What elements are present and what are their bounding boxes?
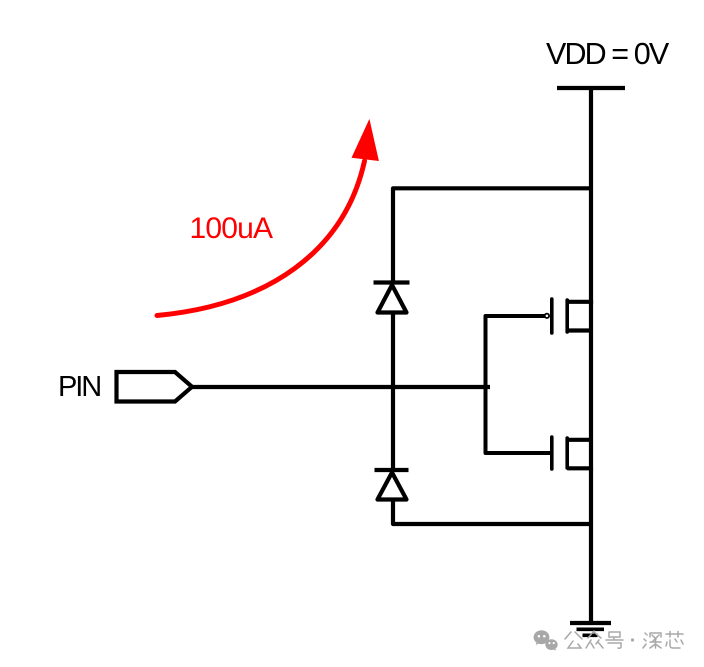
VDD power rail bar	[557, 86, 625, 90]
wire lower rail to ground	[589, 468, 593, 623]
watermark text 公众号·深芯	[565, 631, 683, 648]
wire mid rail between M1 and M2	[589, 300, 593, 470]
transistor M1 PMOS gate bubble	[545, 314, 549, 318]
wire PIN horizontal net	[192, 385, 490, 389]
号	[606, 632, 623, 648]
wire diode D2 anode to bottom rail	[393, 499, 591, 524]
ground symbol	[570, 623, 611, 635]
current arrow curve (red)	[157, 161, 365, 316]
transistor M2 NMOS	[552, 437, 591, 469]
wire VDD rail vertical	[589, 88, 593, 304]
PIN port pentagon symbol	[117, 372, 193, 402]
·	[631, 638, 634, 641]
wire diode D1 anode down to PIN net	[391, 312, 395, 389]
svg-text:PIN: PIN	[58, 371, 100, 403]
diode D2 (lower, from GND)	[375, 470, 409, 500]
公	[565, 632, 582, 648]
watermark wechat icon	[534, 630, 558, 651]
diode D1 (upper, to VDD)	[374, 283, 410, 313]
wire top horizontal to diode branch	[393, 188, 591, 284]
众	[586, 631, 603, 648]
wire diode branch lower vertical	[391, 387, 395, 470]
current arrow head (red)	[352, 119, 379, 161]
wire gate branch vertical	[486, 316, 551, 453]
transistor M1 PMOS	[552, 299, 591, 333]
svg-text:VDD = 0V: VDD = 0V	[546, 37, 670, 71]
深	[643, 633, 661, 648]
芯	[666, 632, 683, 649]
svg-text:100uA: 100uA	[190, 212, 274, 245]
